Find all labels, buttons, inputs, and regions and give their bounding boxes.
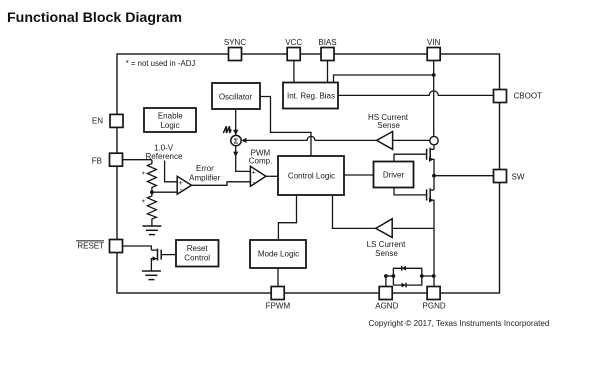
wire LS current sense tap [392,227,433,229]
pad CBOOT [494,90,507,103]
wire reference to error amp non-inverting input [165,161,178,182]
svg-text:LS Current: LS Current [367,240,406,249]
wire VIN vertical [433,54,435,137]
node SW junction [432,174,436,178]
pad VIN [427,48,440,61]
svg-text:*: * [142,171,145,180]
pad BIAS [321,48,334,61]
resistor R-top (FB divider upper) [147,160,156,193]
node FB divider tap [150,190,154,194]
arrowhead on summer output [233,152,238,157]
pad EN [110,114,123,127]
node VIN branch junction [432,73,436,77]
wire diode clamp connector right [422,275,434,277]
amplifier HS current sense [377,132,393,150]
current sense node circle [430,136,438,144]
wire error amp output to PWM comparator [191,182,250,186]
wire HS current sense input from sense node [393,139,430,141]
wire control logic to driver [344,174,374,176]
pad SW [494,170,507,183]
svg-text:Amplifier: Amplifier [189,174,220,183]
svg-text:SW: SW [512,172,525,181]
arrowhead into summer right [241,138,246,143]
svg-text:1.0-V: 1.0-V [154,143,174,152]
block Driver [374,162,414,188]
transistor reset FET (gate right) [151,249,175,271]
wire VIN to Int. Reg. Bias [334,75,434,83]
svg-text:Int. Reg. Bias: Int. Reg. Bias [287,92,335,101]
svg-text:SYNC: SYNC [224,38,246,47]
node diode junction dots [384,274,388,278]
svg-text:RESET: RESET [77,241,104,250]
wire FB pad to divider [122,159,151,161]
wire tap to error amp inverting input [152,191,177,193]
IC boundary box [117,54,500,293]
block Int. Reg. Bias [283,83,338,109]
svg-text:+: + [251,167,255,176]
pad AGND [379,287,392,300]
svg-text:Comp.: Comp. [249,157,273,166]
wire summer to PWM comparator plus input [236,146,251,172]
wire diode branch frame [393,268,421,285]
ground (FB divider) [142,226,161,235]
svg-text:FPWM: FPWM [266,302,291,311]
wire RESET pad to reset FET [122,246,151,250]
wire oscillator output to control logic [260,97,311,157]
comparator PWM Comp [250,166,266,186]
pad FB [110,153,123,166]
svg-text:Control Logic: Control Logic [288,172,335,181]
svg-text:EN: EN [92,116,103,125]
svg-text:AGND: AGND [375,302,398,311]
svg-text:Copyright © 2017, Texas Instru: Copyright © 2017, Texas Instruments Inco… [369,319,550,328]
wire oscillator to summer [235,109,237,135]
pad PGND [427,287,440,300]
wire diode clamp connector left [386,275,394,277]
svg-text:Reset: Reset [187,244,209,253]
svg-text:PGND: PGND [423,302,446,311]
pad SYNC [229,48,242,61]
svg-text:Error: Error [196,164,214,173]
summer circle U-sigma [231,135,241,145]
ground (reset FET source) [142,271,161,280]
pad VCC [287,48,300,61]
pad RESET (active low) [110,240,123,253]
wire SW node to SW pad [434,175,494,177]
svg-text:CBOOT: CBOOT [514,92,543,101]
diode D-bottom (cathode right) [402,283,407,288]
svg-text:Functional Block Diagram: Functional Block Diagram [7,10,182,26]
transistor HS FET [427,148,434,176]
svg-text:FB: FB [92,156,102,165]
sawtooth ramp icon [223,126,231,133]
wire BIAS stub [327,54,329,83]
svg-text:Logic: Logic [160,121,179,130]
block Reset Control [176,240,219,267]
svg-text:*: * [142,199,145,208]
resistor R-bottom (FB divider lower) [147,192,156,225]
block Control Logic [278,156,344,195]
svg-text:Driver: Driver [383,171,405,180]
wire mode logic to FPWM pad [277,268,279,287]
svg-text:VCC: VCC [285,38,302,47]
wire HS sense node to HS FET drain [433,145,435,150]
wire SW node to LS FET drain [433,176,435,190]
svg-text:Enable: Enable [158,112,183,121]
wire LS current sense output to control logic [333,195,376,228]
wire control logic to mode logic [278,195,296,240]
arrowhead into summer top [233,130,238,135]
diode D-top (cathode left) [402,266,406,271]
wire driver to LS gate [394,188,427,195]
pad FPWM [271,287,284,300]
svg-text:Reference: Reference [146,152,183,161]
svg-text:* = not used in -ADJ: * = not used in -ADJ [126,59,196,68]
wire Int. Reg. Bias to CBOOT with hop [338,91,494,96]
svg-text:BIAS: BIAS [318,38,336,47]
svg-text:VIN: VIN [427,38,441,47]
svg-text:Control: Control [184,253,210,262]
amplifier LS current sense [376,219,392,238]
block Oscillator [212,83,260,109]
block Mode Logic [250,240,306,268]
wire VCC stub [293,54,295,83]
svg-text:Sense: Sense [377,121,400,130]
op-amp error amplifier [177,176,191,194]
wire driver to HS gate [394,154,427,161]
wire HS current sense output to summer with hop [246,136,377,140]
svg-text:Mode Logic: Mode Logic [258,250,299,259]
wire PWM comparator output to control logic [266,175,278,177]
block Enable Logic [144,108,196,132]
svg-text:Σ: Σ [234,137,239,146]
wire AGND riser [385,276,387,287]
svg-text:Oscillator: Oscillator [219,92,253,101]
transistor LS FET [427,188,434,286]
svg-text:Sense: Sense [375,249,398,258]
